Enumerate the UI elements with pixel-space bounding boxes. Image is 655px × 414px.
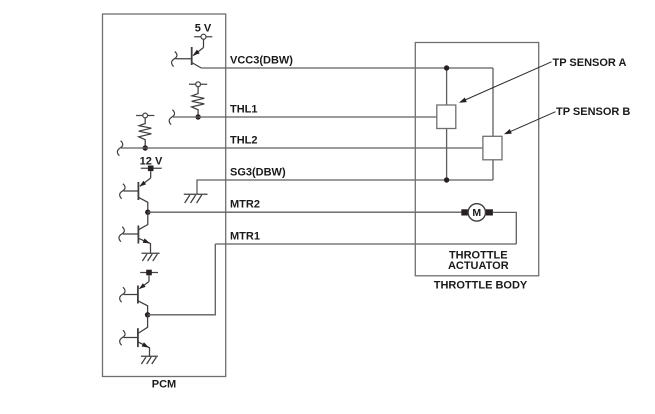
- svg-text:M: M: [472, 207, 481, 219]
- wire sensor B vertical: [492, 68, 494, 180]
- node junction dot MTR1: [145, 312, 150, 317]
- wire MTR1 link: [148, 244, 216, 315]
- wire VCC3: [201, 67, 493, 69]
- resistor R1 (THL1 pull-up): [192, 87, 205, 115]
- wire MTR1: [215, 243, 516, 245]
- 5 V terminal: [194, 34, 212, 39]
- svg-text:SG3(DBW): SG3(DBW): [230, 167, 286, 179]
- motor M: [461, 204, 493, 221]
- svg-text:5 V: 5 V: [195, 23, 212, 35]
- svg-text:THROTTLE BODY: THROTTLE BODY: [434, 279, 528, 291]
- squiggle THL2: [117, 141, 122, 156]
- svg-text:THL1: THL1: [230, 104, 258, 116]
- transistor Q5 (NPN, MTR1 low side): [124, 315, 150, 357]
- node junction dot THL1: [195, 114, 200, 119]
- wire THL1: [173, 116, 437, 118]
- transistor Q1 (PNP, VCC3 driver): [175, 39, 203, 68]
- wire motor to MTR1: [493, 212, 516, 244]
- squiggle Q3 base: [119, 227, 124, 242]
- transistor Q2 (PNP, MTR2 high side): [124, 171, 151, 212]
- wire MTR2: [148, 211, 462, 213]
- svg-text:PCM: PCM: [152, 379, 176, 391]
- squiggle THL1: [169, 110, 174, 125]
- squiggle Q2 base: [120, 184, 125, 199]
- resistor R2 (THL2 pull-up): [139, 118, 152, 146]
- squiggle Q4 base: [120, 287, 125, 302]
- node dot VCC3/sensorA: [444, 65, 449, 70]
- wire sensor A vertical: [446, 68, 448, 180]
- ground G2 (Q3 emitter): [142, 253, 160, 261]
- THL2 pull-up terminal: [136, 113, 154, 118]
- wire THL2: [121, 147, 483, 149]
- THROTTLE BODY box: [415, 43, 538, 276]
- supply terminal (square) for MTR1 pair: [140, 272, 158, 274]
- arrow to sensor B: [506, 112, 556, 134]
- PCM box: [103, 14, 226, 377]
- arrow to sensor A: [461, 62, 552, 102]
- svg-text:MTR1: MTR1: [230, 231, 260, 243]
- 12 V terminal (square): [141, 167, 162, 169]
- svg-text:THL2: THL2: [230, 135, 258, 147]
- squiggle Q5 base: [120, 330, 125, 345]
- node junction dot MTR2: [145, 210, 150, 215]
- svg-text:TP SENSOR B: TP SENSOR B: [556, 106, 630, 118]
- TP sensor A box: [437, 105, 456, 129]
- ground G3 (Q5 emitter): [141, 356, 158, 364]
- svg-text:VCC3(DBW): VCC3(DBW): [230, 55, 293, 67]
- svg-text:TP SENSOR A: TP SENSOR A: [553, 57, 627, 69]
- transistor Q4 (PNP, MTR1 high side): [124, 275, 150, 315]
- squiggle (base continuation) Q1: [172, 52, 177, 67]
- node dot SG3/sensorA: [444, 177, 449, 182]
- TP sensor B box: [483, 136, 502, 160]
- THL1 pull-up terminal: [189, 82, 207, 87]
- wire SG3: [197, 180, 493, 194]
- transistor Q3 (NPN, MTR2 low side): [123, 212, 151, 253]
- node junction dot THL2: [143, 145, 148, 150]
- ground G1 (SG3): [184, 194, 208, 203]
- svg-text:ACTUATOR: ACTUATOR: [448, 260, 509, 272]
- svg-text:MTR2: MTR2: [230, 199, 260, 211]
